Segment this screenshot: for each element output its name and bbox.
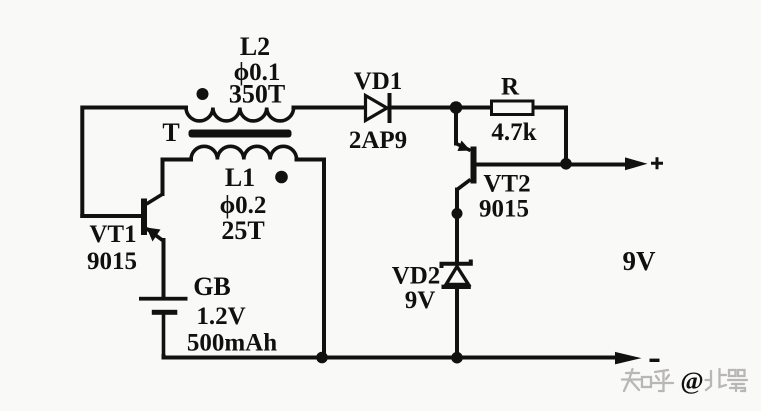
wire node A down to VT2 emitter bbox=[454, 108, 458, 144]
svg-text:350T: 350T bbox=[229, 80, 285, 109]
battery GB negative plate bbox=[152, 310, 178, 315]
svg-text:T: T bbox=[162, 118, 179, 147]
diode VD1 cathode bar bbox=[388, 93, 392, 123]
svg-text:9V: 9V bbox=[405, 287, 436, 314]
zener diode VD2 cathode bar (with ticks) bbox=[442, 260, 471, 269]
svg-text:L1: L1 bbox=[225, 163, 255, 192]
watermark zhihu @beie (gray, hand-drawn CJK strokes) bbox=[622, 369, 747, 391]
+ output plus sign bbox=[651, 157, 663, 169]
wire VD1 cathode to node A bbox=[390, 106, 457, 110]
- output minus sign bbox=[650, 359, 660, 362]
svg-text:VT2: VT2 bbox=[483, 171, 530, 198]
transistor VT1 emitter stroke bbox=[147, 229, 164, 242]
transistor VT2 emitter stroke (to node A) bbox=[456, 144, 471, 151]
transistor VT2 emitter arrowhead bbox=[458, 141, 471, 152]
wire L2 right to VD1 anode bbox=[294, 106, 366, 110]
junction dot negative rail at L1 branch bbox=[316, 352, 328, 364]
inductor L1 winding (feedback, 4 arcs) bbox=[191, 146, 297, 159]
wire VT1 emitter down to battery GB bbox=[162, 240, 166, 297]
node junction dot on VT2 collector / VD2 wire bbox=[452, 208, 463, 219]
svg-text:R: R bbox=[501, 74, 520, 101]
diode VD1 triangle bbox=[366, 96, 388, 121]
phase dot for L1 bbox=[275, 171, 288, 184]
svg-text:VD2: VD2 bbox=[392, 263, 441, 290]
svg-text:9015: 9015 bbox=[87, 248, 137, 275]
svg-text:GB: GB bbox=[193, 272, 231, 301]
transistor VT1 collector stroke bbox=[147, 194, 164, 205]
svg-text:@: @ bbox=[680, 368, 703, 395]
transformer T core bar bbox=[189, 130, 292, 138]
zener diode VD2 anode base bar bbox=[442, 285, 471, 289]
battery GB positive plate bbox=[139, 297, 188, 301]
+ output arrowhead bbox=[625, 157, 648, 170]
wire L1 left terminal to VT1 collector bbox=[163, 160, 192, 195]
svg-text:500mAh: 500mAh bbox=[187, 330, 277, 357]
junction dot negative rail at VD2 branch bbox=[451, 352, 463, 364]
wire negative rail (battery to - output) bbox=[164, 356, 619, 358]
transistor VT1 (PNP 9015) base bar bbox=[141, 199, 147, 236]
zener diode VD2 triangle bbox=[446, 267, 469, 285]
transistor VT2 collector stroke (to VD2) bbox=[457, 180, 471, 191]
svg-text:L2: L2 bbox=[240, 32, 270, 61]
svg-text:25T: 25T bbox=[221, 216, 264, 245]
battery GB stub to rail bbox=[162, 312, 166, 357]
wire VT2 collector down to VD2 cathode bbox=[455, 190, 459, 262]
inductor L2 winding (primary, 4 arcs) bbox=[186, 108, 294, 121]
resistor R body 4.7k bbox=[492, 101, 534, 115]
node A junction dot (VD1 / R / VT2 emitter) bbox=[450, 101, 463, 114]
- output arrowhead bbox=[615, 352, 642, 365]
svg-text:9015: 9015 bbox=[479, 196, 529, 223]
svg-text:1.2V: 1.2V bbox=[196, 303, 245, 330]
svg-text:9V: 9V bbox=[623, 246, 657, 276]
wire L1 right terminal down to negative rail bbox=[297, 160, 325, 358]
transistor VT2 (PNP 9015) base bar bbox=[471, 147, 477, 184]
wire VD2 anode down to negative rail bbox=[455, 288, 459, 358]
svg-text:4.7k: 4.7k bbox=[491, 119, 536, 146]
node B junction dot (R / VT2 base / + output) bbox=[560, 158, 572, 170]
svg-text:VT1: VT1 bbox=[89, 221, 136, 248]
wire VT1 base horizontal bbox=[82, 214, 141, 218]
wire resistor R right, corner down to node B bbox=[533, 108, 566, 164]
wire top-left feedback loop (L2 left to VT1 base) bbox=[82, 108, 186, 217]
wire VT2 base to node B and on to + output bbox=[477, 163, 630, 167]
svg-text:ϕ0.2: ϕ0.2 bbox=[220, 192, 267, 219]
svg-text:2AP9: 2AP9 bbox=[349, 127, 407, 154]
svg-text:VD1: VD1 bbox=[354, 68, 403, 95]
transistor VT1 emitter arrowhead bbox=[147, 228, 161, 242]
wire node A to resistor R left bbox=[456, 106, 492, 110]
phase dot for L2 bbox=[197, 88, 209, 100]
